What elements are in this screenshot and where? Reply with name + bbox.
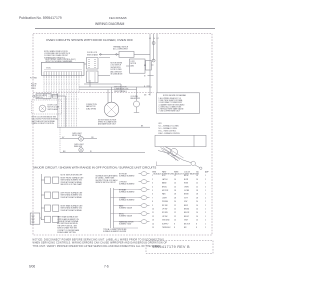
svg-text:8: 8 xyxy=(196,223,197,225)
latch wire drop xyxy=(65,96,67,127)
svg-text:8: 8 xyxy=(174,227,175,229)
svg-text:1: 1 xyxy=(205,175,206,177)
terminal block TB1 xyxy=(30,213,40,224)
oven lamp DS1 xyxy=(79,136,84,141)
svg-text:Publication No. 5995417179: Publication No. 5995417179 xyxy=(19,16,62,20)
small roller xyxy=(200,167,202,169)
svg-text:12: 12 xyxy=(152,216,154,218)
svg-text:1: 1 xyxy=(205,183,206,185)
bottom notice paragraph xyxy=(33,238,168,247)
svg-text:12: 12 xyxy=(174,205,176,207)
svg-text:DOOR LATCH: DOOR LATCH xyxy=(37,94,48,97)
wire harness bus below EOC xyxy=(44,76,79,128)
svg-text:18: 18 xyxy=(174,190,176,192)
element symbols column xyxy=(139,172,150,224)
svg-text:12: 12 xyxy=(196,186,198,188)
svg-text:OVEN LIGHT: OVEN LIGHT xyxy=(74,144,84,146)
lamp DS1 wires xyxy=(60,138,79,140)
svg-text:13: 13 xyxy=(152,220,154,222)
svg-text:20: 20 xyxy=(174,201,176,203)
svg-text:10: 10 xyxy=(174,183,176,185)
svg-text:SURFACE UNITS ARE RATED: SURFACE UNITS ARE RATED xyxy=(96,174,119,177)
svg-text:COLOR: COLOR xyxy=(184,172,191,174)
svg-text:14: 14 xyxy=(196,205,198,207)
oven light circuit left dashed drop xyxy=(59,127,61,152)
svg-text:DOOR CLOSED: DOOR CLOSED xyxy=(111,69,123,71)
wire drop x121 xyxy=(120,84,122,93)
EOC board box U1 xyxy=(42,62,85,75)
switch SW3 contact boxes xyxy=(45,205,51,211)
sketch frame box xyxy=(155,135,206,146)
svg-text:1: 1 xyxy=(205,209,206,211)
convection motor M1 circle xyxy=(104,102,119,117)
svg-text:5995417179 REV B: 5995417179 REV B xyxy=(153,245,191,249)
svg-text:LEFT FRONT SURFACE UNIT: LEFT FRONT SURFACE UNIT xyxy=(61,191,83,194)
svg-text:BK/W: BK/W xyxy=(184,175,189,177)
svg-text:2: 2 xyxy=(205,205,206,207)
svg-text:WHEN SERVICING CONTROLS. WIRIN: WHEN SERVICING CONTROLS. WIRING ERRORS C… xyxy=(33,242,168,245)
svg-text:BK R W: BK R W xyxy=(184,223,190,225)
wire from box to rail xyxy=(134,53,150,55)
svg-text:THIS UNIT. VERIFY PROPER OPERA: THIS UNIT. VERIFY PROPER OPERATION AFTER… xyxy=(33,245,162,248)
wire EOC to connector xyxy=(84,63,87,65)
svg-text:1: 1 xyxy=(205,223,206,225)
svg-text:18: 18 xyxy=(174,194,176,196)
svg-text:RR SW: RR SW xyxy=(162,212,168,214)
wire L1 drop xyxy=(149,34,151,93)
svg-text:OR/W: OR/W xyxy=(184,186,189,188)
svg-text:4: 4 xyxy=(152,186,153,188)
svg-text:12: 12 xyxy=(174,175,176,177)
svg-text:2: 2 xyxy=(205,220,206,222)
svg-text:7-6: 7-6 xyxy=(104,264,109,268)
door latch switch box xyxy=(36,94,51,99)
svg-text:18: 18 xyxy=(196,194,198,196)
wire bus across xyxy=(84,83,121,85)
svg-text:BR: BR xyxy=(184,227,187,229)
svg-text:LT FRONT: LT FRONT xyxy=(119,181,127,183)
wire second run xyxy=(99,56,110,58)
svg-text:GN/Y: GN/Y xyxy=(184,220,189,222)
rail wire stubs xyxy=(147,76,154,96)
svg-text:LIGHT: LIGHT xyxy=(162,197,167,199)
svg-text:3. DISCONNECT POWER FIRST: 3. DISCONNECT POWER FIRST xyxy=(159,102,183,104)
wire latch box to L1 rail xyxy=(151,64,153,66)
lock motor dashed enclosure xyxy=(32,100,62,114)
svg-text:TERM BLK: TERM BLK xyxy=(162,227,171,229)
svg-text:GY/Y: GY/Y xyxy=(184,197,189,199)
svg-text:RIGHT FRONT SURFACE UNIT: RIGHT FRONT SURFACE UNIT xyxy=(61,176,84,179)
middle band small text labels xyxy=(32,94,145,153)
EOC pin ticks xyxy=(44,72,82,76)
svg-text:10: 10 xyxy=(196,220,198,222)
svg-text:MOTOR: MOTOR xyxy=(162,190,169,192)
svg-text:ELEMENT 750W: ELEMENT 750W xyxy=(119,224,132,226)
svg-text:SWITCH: SWITCH xyxy=(37,97,44,99)
svg-text:20: 20 xyxy=(196,201,198,203)
harness pin labels xyxy=(30,78,37,90)
svg-text:18: 18 xyxy=(196,190,198,192)
svg-text:WIRE: WIRE xyxy=(174,172,179,174)
svg-text:2: 2 xyxy=(205,186,206,188)
svg-text:MAJOR CIRCUIT / SHOWN WITH RAN: MAJOR CIRCUIT / SHOWN WITH RANGE IN OFF … xyxy=(34,166,157,170)
svg-text:6: 6 xyxy=(152,194,153,196)
svg-text:7: 7 xyxy=(152,197,153,199)
svg-text:BROIL: BROIL xyxy=(162,186,167,188)
sketch frame divider xyxy=(193,135,195,146)
wire drop to fan xyxy=(136,87,138,101)
svg-text:THE OFF POSITION - SEE: THE OFF POSITION - SEE xyxy=(57,225,76,227)
oven lamp DS2 xyxy=(79,148,83,152)
lock motor assembly box xyxy=(130,59,146,73)
svg-text:V/W: V/W xyxy=(184,201,188,203)
EOC label inside box xyxy=(47,67,52,69)
element E2 symbol xyxy=(139,181,142,183)
pointer arrow xyxy=(158,151,170,155)
svg-text:P1 CONN: P1 CONN xyxy=(30,78,37,80)
latch aux contact box xyxy=(53,94,58,98)
wire door switch to box xyxy=(99,53,119,55)
svg-text:FRONT 40W: FRONT 40W xyxy=(72,135,82,137)
svg-text:1: 1 xyxy=(205,190,206,192)
svg-text:WARM AND SERVE: WARM AND SERVE xyxy=(119,220,134,223)
svg-text:LOCK: LOCK xyxy=(131,61,135,63)
svg-text:10: 10 xyxy=(174,220,176,222)
svg-text:ITEM: ITEM xyxy=(152,172,157,174)
svg-text:MOTOR: MOTOR xyxy=(131,63,137,65)
svg-text:14: 14 xyxy=(152,223,154,225)
lamp DS2 bottom wire xyxy=(60,152,145,154)
svg-text:BK: BK xyxy=(144,65,146,67)
connector block P4 lower xyxy=(87,71,99,83)
wire connector to text node xyxy=(98,74,110,76)
wire L2 drop xyxy=(156,34,158,93)
svg-text:ELEMENT 3600W: ELEMENT 3600W xyxy=(119,216,132,218)
part number box xyxy=(146,240,213,253)
svg-text:SUPPLY: SUPPLY xyxy=(162,223,169,225)
svg-text:12: 12 xyxy=(174,216,176,218)
svg-text:12: 12 xyxy=(174,212,176,214)
svg-text:BK/R: BK/R xyxy=(184,205,189,207)
svg-text:5: 5 xyxy=(152,190,153,192)
svg-text:GN: GN xyxy=(144,94,146,96)
cooktop burner circle xyxy=(170,148,177,155)
svg-text:2: 2 xyxy=(205,197,206,199)
svg-text:8: 8 xyxy=(196,227,197,229)
svg-text:1. ALL WIRING 18GA 105°C UL: 1. ALL WIRING 18GA 105°C UL xyxy=(159,97,182,100)
roller arm xyxy=(195,165,200,168)
svg-text:14: 14 xyxy=(196,209,198,211)
svg-text:GY/BK: GY/BK xyxy=(184,190,190,192)
wire lock box left xyxy=(126,65,130,67)
svg-text:NOTICE: DISCONNECT POWER BEFOR: NOTICE: DISCONNECT POWER BEFORE SERVICIN… xyxy=(33,238,165,241)
svg-text:ELEMENT 3400W: ELEMENT 3400W xyxy=(119,208,132,210)
svg-text:RF SW: RF SW xyxy=(162,205,168,207)
sketch cone lines xyxy=(162,147,184,161)
svg-text:LF SW: LF SW xyxy=(162,209,168,211)
svg-text:COOLING: COOLING xyxy=(131,96,139,98)
svg-text:2: 2 xyxy=(152,179,153,181)
svg-text:BAKE: BAKE xyxy=(162,182,167,185)
svg-text:2: 2 xyxy=(205,212,206,214)
part number text xyxy=(153,245,191,249)
rail wire stub labels xyxy=(144,65,146,96)
lower-left switch labels xyxy=(57,173,134,234)
wires rows to rail xyxy=(41,179,44,181)
serial plate sketch xyxy=(155,135,206,169)
svg-text:STATE OF REST POSITION.: STATE OF REST POSITION. xyxy=(32,122,55,125)
svg-text:P2-3 W: P2-3 W xyxy=(31,86,37,88)
L1 N L2 supply labels xyxy=(149,38,159,40)
svg-text:LR SW: LR SW xyxy=(162,216,168,218)
svg-text:RIGHT REAR SURFACE UNIT: RIGHT REAR SURFACE UNIT xyxy=(61,204,83,207)
svg-text:8: 8 xyxy=(174,223,175,225)
sketch caption xyxy=(154,173,200,176)
svg-text:INFINITE SWITCH CIRCUIT: INFINITE SWITCH CIRCUIT xyxy=(96,182,116,184)
wire N drop xyxy=(153,34,155,61)
switch SW1 contact boxes xyxy=(45,177,51,183)
svg-text:PART: PART xyxy=(162,171,166,174)
svg-text:6/06: 6/06 xyxy=(29,264,35,268)
svg-text:AMP: AMP xyxy=(205,171,210,174)
svg-text:LT REAR: LT REAR xyxy=(119,196,126,199)
svg-text:OVEN CIRCUITS SHOWN WITH DOOR: OVEN CIRCUITS SHOWN WITH DOOR CLOSED, OV… xyxy=(46,38,133,42)
svg-text:14: 14 xyxy=(196,175,198,177)
svg-text:14: 14 xyxy=(196,216,198,218)
connector block P3 upper xyxy=(87,58,99,70)
cooktop outline lines xyxy=(161,147,192,163)
svg-text:P2-1 BK: P2-1 BK xyxy=(31,84,37,86)
svg-text:1: 1 xyxy=(205,201,206,203)
svg-text:CONVECTION: CONVECTION xyxy=(86,104,97,106)
svg-text:BK/GY: BK/GY xyxy=(184,216,190,218)
svg-text:(N.C.) OVEN VENT: (N.C.) OVEN VENT xyxy=(113,49,128,51)
svg-text:1: 1 xyxy=(152,175,153,177)
svg-text:14: 14 xyxy=(196,212,198,214)
svg-text:BAKE: BAKE xyxy=(119,204,123,207)
sketch floor line xyxy=(157,162,192,167)
svg-text:EOC: EOC xyxy=(47,67,52,69)
svg-text:MOTOR RUNS ON HIGH: MOTOR RUNS ON HIGH xyxy=(98,119,117,121)
svg-text:SHOWN WITH: SHOWN WITH xyxy=(111,67,121,69)
oven light circuit top wire xyxy=(57,126,150,128)
dashed divider oven section bottom xyxy=(33,92,154,94)
switch SW2 contact boxes xyxy=(45,192,51,198)
element E3 symbol xyxy=(139,189,142,191)
svg-text:MOTOR DRIVEN: MOTOR DRIVEN xyxy=(111,63,123,65)
element E1 symbol xyxy=(139,173,142,175)
svg-text:8: 8 xyxy=(152,201,153,203)
svg-text:11: 11 xyxy=(152,212,154,214)
svg-text:2: 2 xyxy=(205,227,206,229)
svg-text:LOCK SWITCH: LOCK SWITCH xyxy=(111,65,121,67)
svg-text:RT FRONT: RT FRONT xyxy=(119,173,127,175)
element E5 symbol xyxy=(139,205,142,207)
element feed stubs xyxy=(111,190,139,228)
svg-text:KEY: KEY xyxy=(159,123,163,125)
switch SW4 contact boxes xyxy=(45,216,51,222)
svg-text:W: W xyxy=(144,75,146,77)
svg-text:FAN: FAN xyxy=(162,193,166,196)
svg-text:3: 3 xyxy=(152,183,153,185)
svg-text:LEFT REAR SURFACE UNIT: LEFT REAR SURFACE UNIT xyxy=(57,216,78,219)
terminal circle L1 xyxy=(152,42,155,45)
svg-text:EOC - OVEN CONTROL: EOC - OVEN CONTROL xyxy=(159,130,177,132)
lock assembly internal text xyxy=(111,61,137,93)
svg-text:BU/R: BU/R xyxy=(184,179,189,181)
terminal dot B xyxy=(116,54,118,56)
svg-text:14: 14 xyxy=(174,179,176,181)
svg-text:1: 1 xyxy=(205,216,206,218)
terminal circle N xyxy=(152,59,155,62)
element E6 symbol xyxy=(139,213,142,215)
NOTES box U-right xyxy=(157,93,200,114)
svg-text:WIRING DIAGRAM: WIRING DIAGRAM xyxy=(95,22,125,26)
svg-text:P2-8 R: P2-8 R xyxy=(31,88,37,90)
svg-text:16: 16 xyxy=(196,179,198,181)
outer dashed enclosure xyxy=(33,34,212,236)
element E7 symbol xyxy=(139,221,142,223)
svg-text:NOTES SHOWN ON DIAGRAM: NOTES SHOWN ON DIAGRAM xyxy=(163,94,186,97)
svg-text:18: 18 xyxy=(196,197,198,199)
roller circle xyxy=(191,161,195,165)
svg-text:BK/OR: BK/OR xyxy=(184,212,190,214)
svg-text:SWITCH ASM: SWITCH ASM xyxy=(87,53,98,56)
svg-text:OVEN LIGHT: OVEN LIGHT xyxy=(72,133,82,135)
right side data table rows xyxy=(152,171,210,230)
latch switch wire xyxy=(51,95,66,97)
thermal switch box xyxy=(119,52,134,58)
svg-text:2: 2 xyxy=(205,179,206,181)
latch terminal circle xyxy=(33,95,35,97)
svg-text:7. USE COPPER WIRE ONLY: 7. USE COPPER WIRE ONLY xyxy=(159,111,181,113)
harness tick row 1 xyxy=(59,99,79,109)
svg-text:DOOR LOCK: DOOR LOCK xyxy=(48,105,59,107)
cooling fan F1 xyxy=(134,101,140,107)
svg-text:1: 1 xyxy=(205,194,206,196)
svg-text:10: 10 xyxy=(152,209,154,211)
svg-text:BROIL: BROIL xyxy=(119,213,124,215)
header rule xyxy=(35,28,215,30)
svg-text:PROBE: PROBE xyxy=(162,201,169,203)
svg-text:9: 9 xyxy=(152,205,153,207)
svg-text:12: 12 xyxy=(196,183,198,185)
svg-text:R/BK: R/BK xyxy=(184,183,189,185)
svg-text:BK/BU: BK/BU xyxy=(184,209,190,211)
footer date xyxy=(29,264,109,268)
element E4 symbol xyxy=(139,197,142,199)
svg-text:BN/W: BN/W xyxy=(184,194,189,196)
left rail lower section xyxy=(30,174,138,228)
svg-text:RT REAR: RT REAR xyxy=(119,188,127,191)
svg-text:FEC30S6AB: FEC30S6AB xyxy=(109,16,127,20)
svg-text:GA: GA xyxy=(196,171,199,174)
lock motor M2 circle xyxy=(39,105,46,112)
wire drop to motor xyxy=(111,87,113,102)
svg-text:NOTE: SWITCH SHOWN OFF: NOTE: SWITCH SHOWN OFF xyxy=(61,174,83,176)
svg-text:15: 15 xyxy=(152,227,154,229)
terminal dot A xyxy=(100,54,102,56)
EOC pin number row xyxy=(44,77,83,90)
svg-text:TYPICAL CONNECTION OF ALL: TYPICAL CONNECTION OF ALL xyxy=(103,228,127,231)
svg-text:10: 10 xyxy=(174,186,176,188)
svg-text:18: 18 xyxy=(174,197,176,199)
horizontal wire run right xyxy=(79,80,152,103)
svg-text:LATCH: LATCH xyxy=(162,178,168,181)
svg-text:GROUND: GROUND xyxy=(162,220,170,222)
wire drop node xyxy=(89,80,91,87)
svg-text:12: 12 xyxy=(174,209,176,211)
notes box border xyxy=(157,93,200,114)
latch cam switch box xyxy=(146,61,152,71)
